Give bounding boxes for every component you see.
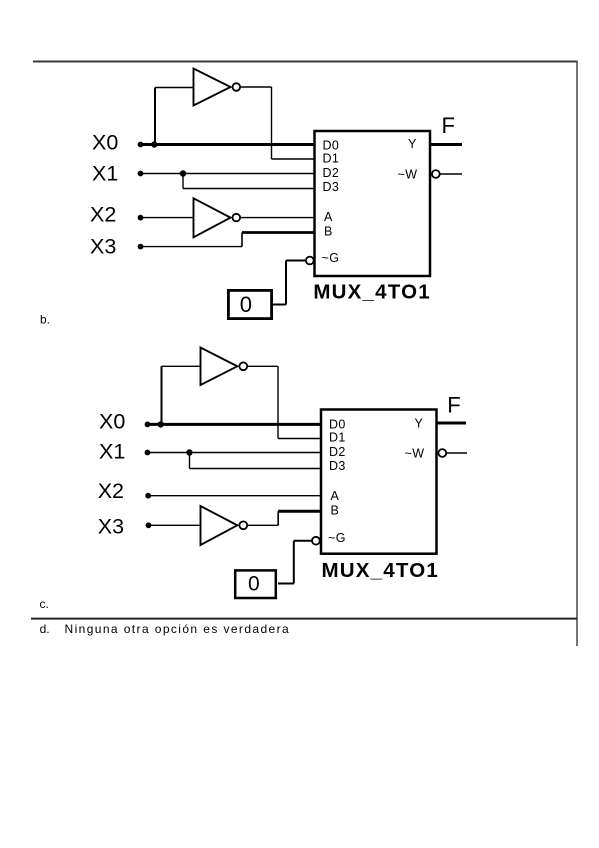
pin bubble ~G input bbox=[312, 537, 320, 545]
wire X2 to inverter B2 bbox=[139, 217, 194, 219]
wire output ~W bbox=[440, 173, 462, 175]
svg-text:X0: X0 bbox=[92, 131, 118, 155]
wire X2 to A bbox=[147, 495, 322, 497]
svg-text:MUX_4TO1: MUX_4TO1 bbox=[322, 559, 439, 582]
pin bubble ~G input bbox=[306, 257, 314, 265]
svg-text:D1: D1 bbox=[323, 151, 340, 165]
svg-text:D1: D1 bbox=[329, 430, 346, 444]
frame middle rule bbox=[31, 618, 577, 620]
wire X3 to inverter C2 bbox=[147, 524, 201, 526]
inverter B2 bbox=[194, 198, 231, 237]
svg-text:B: B bbox=[331, 503, 340, 517]
constant 0 box bbox=[228, 290, 271, 318]
wire inverter B1 input bbox=[155, 87, 194, 89]
wire X1 to D2 bbox=[146, 452, 322, 454]
svg-text:A: A bbox=[331, 489, 340, 503]
wire ~G left bbox=[294, 540, 312, 542]
inverter B1 bbox=[194, 69, 231, 106]
wire X3 right bbox=[139, 246, 242, 248]
pin bubble ~W output bbox=[438, 449, 446, 457]
svg-text:X2: X2 bbox=[90, 203, 116, 227]
svg-text:0: 0 bbox=[240, 292, 252, 317]
svg-text:~W: ~W bbox=[398, 167, 418, 181]
wire inverter C1 output to D1 bbox=[278, 438, 322, 440]
svg-text:D3: D3 bbox=[329, 459, 346, 473]
wire inverter B1 output to D1 bbox=[272, 158, 316, 160]
wire X0 junction up to inverter input bbox=[154, 88, 156, 145]
wire ~G left bbox=[286, 260, 306, 262]
svg-text:D0: D0 bbox=[329, 417, 346, 431]
node X1 terminal bbox=[145, 450, 151, 456]
wire inverter B1 output down bbox=[271, 87, 273, 159]
wire X1 junction down bbox=[189, 453, 191, 469]
wire X0 junction up to inverter input bbox=[161, 366, 163, 424]
node X1 junction bbox=[180, 170, 186, 176]
node X0 junction bbox=[158, 421, 164, 427]
svg-text:D0: D0 bbox=[323, 138, 340, 152]
wire output Y bbox=[436, 422, 466, 425]
wire inverter C1 output right bbox=[247, 365, 278, 367]
svg-text:c.: c. bbox=[40, 597, 49, 611]
wire inverter C1 output down bbox=[277, 366, 279, 438]
pin bubble ~W output bbox=[432, 170, 440, 178]
svg-text:X1: X1 bbox=[92, 161, 118, 185]
inverter C1 bbox=[201, 348, 238, 386]
wire X1 junction down bbox=[182, 174, 184, 189]
svg-text:d.: d. bbox=[40, 622, 50, 636]
svg-text:F: F bbox=[442, 113, 455, 138]
constant 0 box bbox=[235, 570, 276, 598]
node X2 terminal bbox=[145, 493, 151, 499]
svg-text:X1: X1 bbox=[99, 440, 125, 464]
wire X3 to B bbox=[242, 231, 315, 234]
svg-text:D2: D2 bbox=[329, 445, 346, 459]
svg-text:B: B bbox=[324, 224, 333, 238]
wire inverter C1 input bbox=[162, 365, 201, 367]
frame right rule bbox=[576, 61, 578, 646]
wire inverter B2 output to A bbox=[240, 217, 315, 219]
svg-text:D3: D3 bbox=[323, 180, 340, 194]
node X1 junction bbox=[186, 449, 192, 455]
wire inverter C2 output to B bbox=[278, 510, 322, 513]
MUX U1 box bbox=[315, 131, 431, 276]
wire X3 up bbox=[241, 233, 243, 247]
svg-text:Ninguna otra opción es verdade: Ninguna otra opción es verdadera bbox=[65, 622, 291, 636]
frame top rule bbox=[33, 61, 578, 63]
wire ~G down bbox=[285, 261, 287, 305]
svg-text:D2: D2 bbox=[323, 166, 340, 180]
svg-text:X3: X3 bbox=[90, 235, 116, 259]
wire X1 to D3 bbox=[190, 468, 323, 470]
svg-text:~W: ~W bbox=[405, 446, 425, 460]
svg-text:MUX_4TO1: MUX_4TO1 bbox=[313, 280, 430, 303]
wire output Y bbox=[429, 143, 462, 146]
MUX U2 box bbox=[321, 410, 437, 554]
svg-text:A: A bbox=[324, 210, 333, 224]
wire X1 to D3 bbox=[183, 188, 315, 190]
wire ~G to constant box bbox=[272, 304, 286, 306]
svg-text:~G: ~G bbox=[328, 531, 346, 545]
svg-text:Y: Y bbox=[415, 416, 424, 430]
svg-text:X3: X3 bbox=[98, 514, 124, 538]
svg-text:X0: X0 bbox=[99, 409, 125, 433]
node X0 terminal bbox=[145, 422, 151, 428]
node X2 terminal bbox=[138, 215, 144, 221]
wire X1 to D2 bbox=[139, 173, 315, 175]
svg-text:Y: Y bbox=[408, 137, 417, 151]
wire ~G to constant box bbox=[278, 583, 294, 585]
node X1 terminal bbox=[138, 171, 144, 177]
wire inverter C2 output up bbox=[277, 511, 279, 525]
svg-text:X2: X2 bbox=[98, 479, 124, 503]
svg-text:~G: ~G bbox=[322, 251, 340, 265]
wire ~G down bbox=[293, 541, 295, 584]
wire inverter C2 output right bbox=[247, 524, 278, 526]
inverter C2 bbox=[201, 506, 238, 545]
node X3 terminal bbox=[138, 244, 144, 250]
wire X0 to D0 bbox=[146, 423, 322, 426]
node X0 terminal bbox=[138, 142, 144, 148]
svg-text:0: 0 bbox=[248, 573, 260, 596]
svg-text:F: F bbox=[447, 392, 460, 417]
node X0 junction bbox=[151, 141, 157, 147]
wire X0 to D0 bbox=[139, 143, 315, 146]
node X3 terminal bbox=[146, 522, 152, 528]
wire output ~W bbox=[446, 452, 467, 454]
wire inverter B1 output right bbox=[240, 86, 271, 88]
svg-text:b.: b. bbox=[40, 313, 50, 327]
